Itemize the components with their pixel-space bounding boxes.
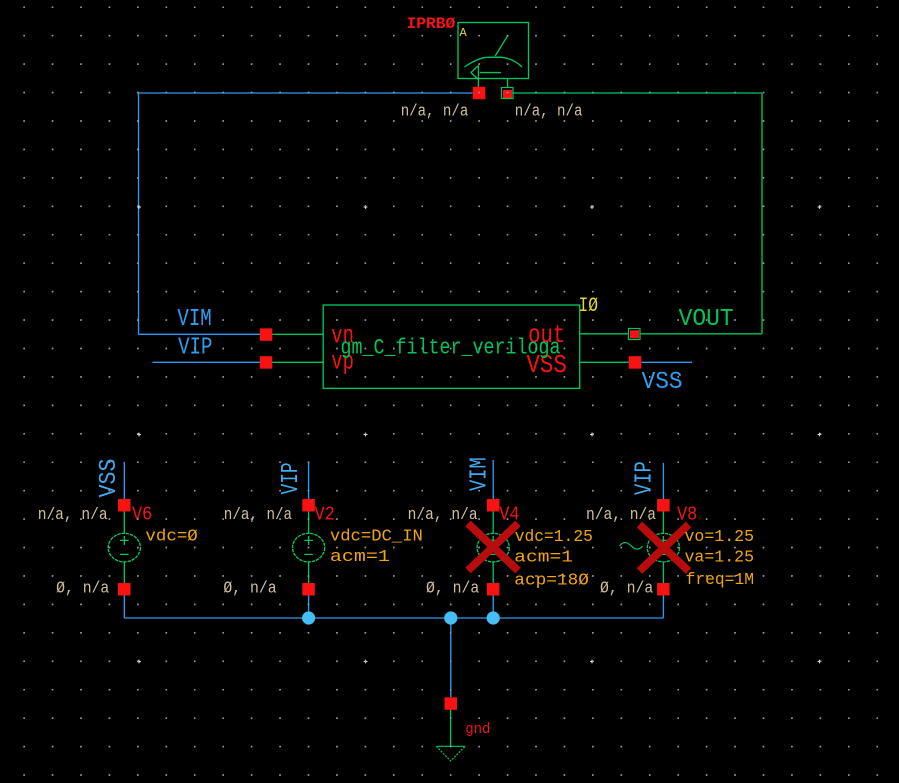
svg-text:V4: V4 [499,504,519,526]
svg-text:n/a, n/a: n/a, n/a [38,506,108,525]
svg-text:VIP: VIP [178,334,212,361]
svg-text:A: A [460,26,468,40]
svg-text:acm=1: acm=1 [514,548,573,567]
svg-text:IØ: IØ [579,295,599,318]
svg-text:Ø, n/a: Ø, n/a [223,580,276,599]
svg-text:V2: V2 [315,504,335,526]
svg-text:V8: V8 [677,504,697,526]
svg-text:VSS: VSS [96,459,123,498]
svg-text:n/a, n/a: n/a, n/a [224,506,292,525]
svg-text:IPRBØ: IPRBØ [407,15,456,33]
svg-text:Ø, n/a: Ø, n/a [56,580,109,599]
svg-text:Ø, n/a: Ø, n/a [426,580,479,599]
svg-text:gnd: gnd [465,721,490,738]
svg-text:n/a, n/a: n/a, n/a [408,506,478,525]
svg-text:vdc=1.25: vdc=1.25 [515,528,593,547]
svg-text:VIM: VIM [467,457,494,491]
svg-text:n/a, n/a: n/a, n/a [401,102,469,121]
svg-text:VIM: VIM [177,306,211,333]
svg-text:VOUT: VOUT [679,306,734,333]
svg-text:n/a, n/a: n/a, n/a [586,506,656,525]
svg-text:gm_C_filter_veriloga: gm_C_filter_veriloga [341,336,561,361]
svg-text:Ø, n/a: Ø, n/a [600,580,653,599]
svg-text:n/a, n/a: n/a, n/a [515,102,583,121]
svg-text:vdc=DC_IN: vdc=DC_IN [330,528,423,547]
svg-text:acm=1: acm=1 [330,548,390,567]
svg-text:V6: V6 [132,504,152,526]
svg-text:VSS: VSS [642,369,683,396]
svg-text:acp=18Ø: acp=18Ø [514,571,589,590]
svg-text:va=1.25: va=1.25 [685,549,755,568]
svg-text:VIP: VIP [278,462,305,494]
svg-text:freq=1M: freq=1M [686,571,754,590]
svg-text:VIP: VIP [632,461,659,495]
svg-text:vdc=Ø: vdc=Ø [145,528,197,547]
svg-text:vo=1.25: vo=1.25 [685,528,755,547]
